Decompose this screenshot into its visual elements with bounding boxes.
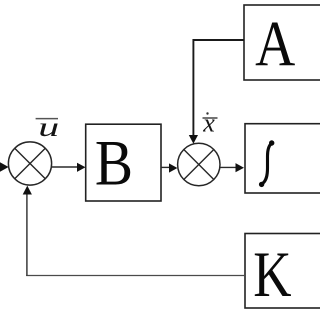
wire from A (vertical down to S2) <box>192 39 194 137</box>
summing junction S1 (circle with X) <box>8 142 51 185</box>
input arrow into S1 <box>0 162 9 171</box>
wire from A (horizontal) <box>193 39 244 41</box>
wire feedback vertical up to S1 <box>26 194 28 277</box>
wire S1 to B with arrow <box>52 163 86 172</box>
block integrator <box>245 124 320 193</box>
svg-text:u: u <box>38 112 59 142</box>
label x-bar-dot <box>202 108 217 137</box>
wire B to S2 with arrow <box>161 163 177 172</box>
block B <box>86 124 161 201</box>
svg-text:x: x <box>202 108 215 137</box>
block A <box>244 5 320 80</box>
wire S2 to integrator with arrow <box>220 163 244 172</box>
svg-text:A: A <box>255 8 295 80</box>
wire from K (horizontal feedback) <box>26 275 245 277</box>
arrow into S2 top <box>189 135 198 144</box>
summing junction S2 (circle with X) <box>178 143 220 185</box>
svg-text:K: K <box>253 238 291 310</box>
arrow into S1 bottom <box>23 186 32 195</box>
svg-text:B: B <box>95 127 133 199</box>
block K <box>245 234 320 311</box>
label u-bar <box>36 112 60 142</box>
